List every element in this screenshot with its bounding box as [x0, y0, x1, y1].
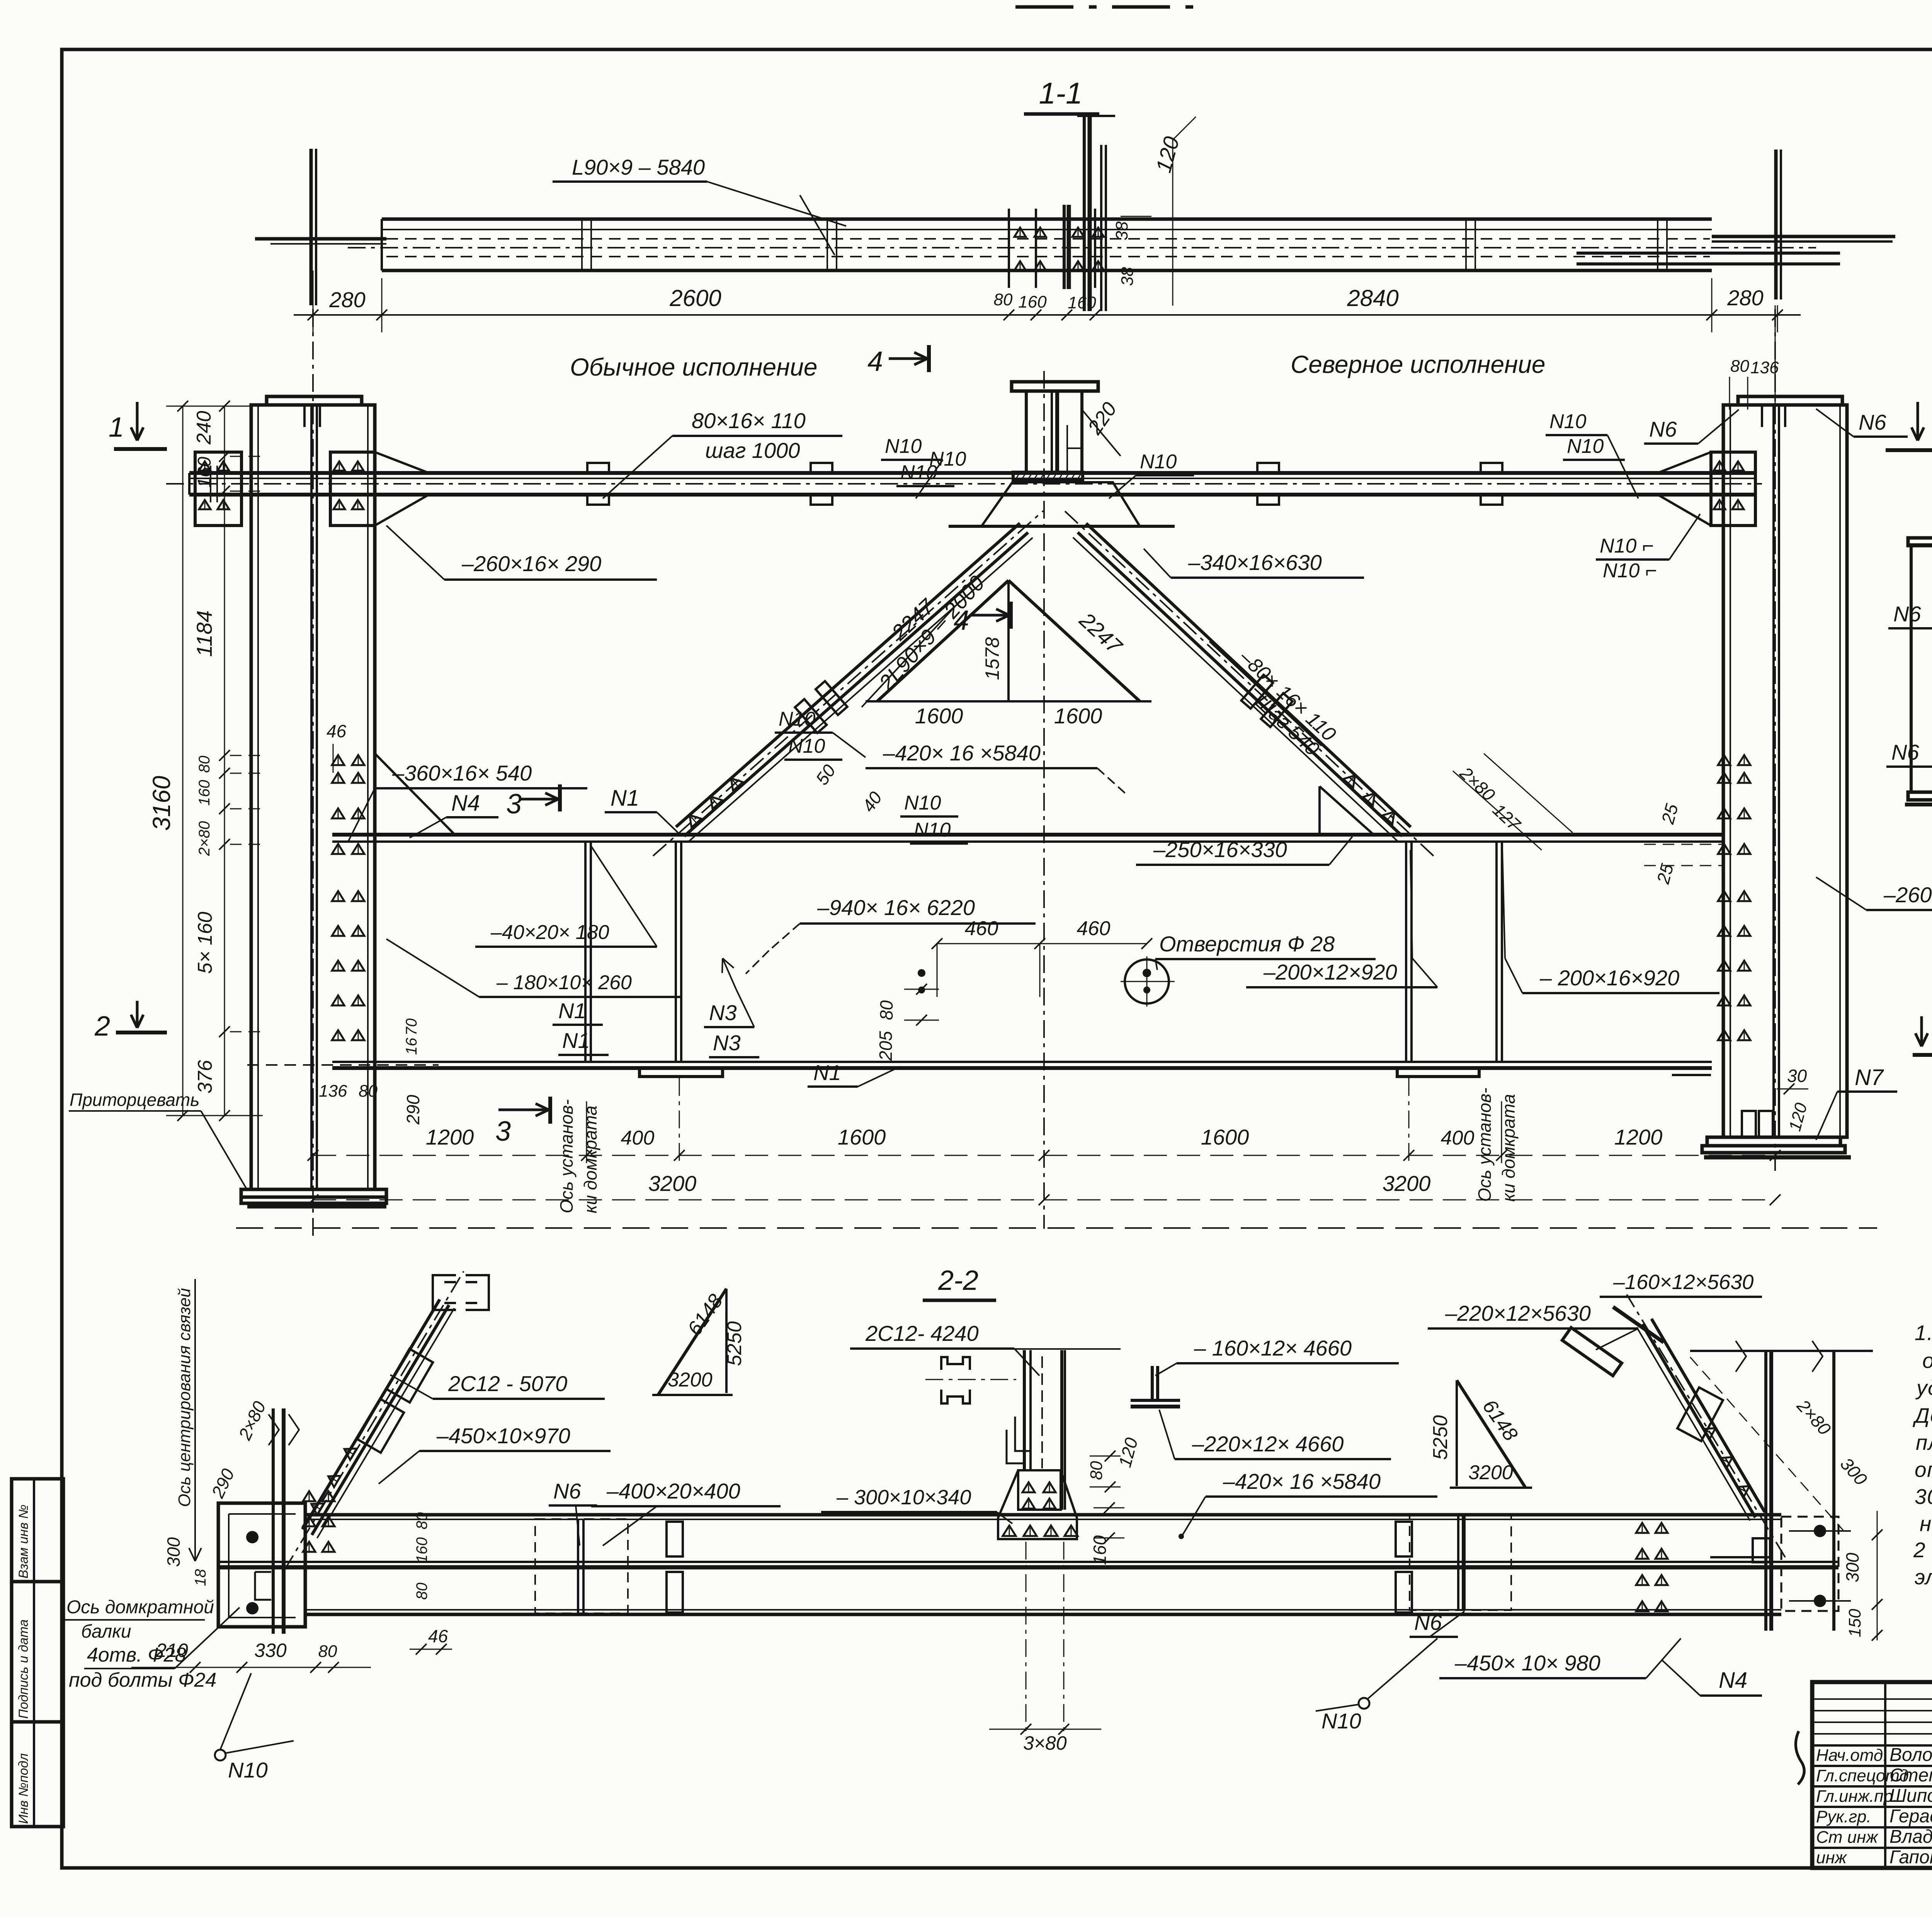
fold mark top center [1015, 5, 1198, 9]
svg-text:290: 290 [403, 1095, 423, 1125]
svg-text:N1: N1 [813, 1060, 841, 1085]
svg-text:N10: N10 [1140, 451, 1177, 473]
svg-text:80: 80 [1087, 1461, 1106, 1480]
apex gusset [981, 482, 1140, 526]
svg-text:Инв №подл: Инв №подл [16, 1753, 31, 1824]
lower datum dashed line [236, 1227, 1877, 1229]
svg-text:N10: N10 [904, 792, 941, 814]
svg-text:38: 38 [1112, 221, 1131, 240]
svg-text:160: 160 [413, 1537, 430, 1563]
svg-text:Ось центрирования связей: Ось центрирования связей [175, 1288, 194, 1507]
left column baseplate [241, 1189, 386, 1197]
main girder top flange [332, 833, 1724, 837]
svg-text:80: 80 [994, 290, 1013, 309]
2-2 3x80 dim [989, 1729, 1101, 1730]
svg-text:1: 1 [109, 412, 124, 443]
svg-text:1. Подъем (опускание) пролетно: 1. Подъем (опускание) пролетного строени… [1915, 1321, 1932, 1345]
holes d28 [1125, 959, 1169, 1004]
svg-text:1200: 1200 [1614, 1125, 1663, 1149]
svg-text:–420× 16 ×5840: –420× 16 ×5840 [883, 741, 1041, 765]
left gusset slopes [375, 452, 429, 473]
2-2 beam band bottom line [305, 1609, 1781, 1611]
svg-text:N6: N6 [553, 1479, 581, 1503]
svg-text:400: 400 [1441, 1127, 1475, 1149]
svg-text:80: 80 [876, 1000, 896, 1020]
svg-text:46: 46 [327, 721, 347, 741]
svg-text:– 300×10×340: – 300×10×340 [836, 1486, 971, 1509]
svg-text:Гл.инж.пр.: Гл.инж.пр. [1816, 1787, 1898, 1806]
svg-text:площадок, указанным на черте: площадок, указанным на черте жах : на кр… [1916, 1431, 1932, 1454]
2-2 weld cluster left [303, 1491, 315, 1501]
svg-text:2600: 2600 [669, 285, 721, 311]
girder bottom dims rows [313, 1155, 1775, 1156]
2-2 beam band top line [305, 1513, 1781, 1517]
svg-text:3200: 3200 [648, 1171, 697, 1196]
2-2 left column flange band [272, 1408, 275, 1634]
clamps on tie beam [587, 463, 609, 473]
2-2 left diagonal (plan) [303, 1300, 440, 1529]
svg-text:280: 280 [329, 287, 365, 312]
center stub column (section 4 element) [1012, 382, 1098, 391]
svg-text:5250: 5250 [723, 1321, 746, 1366]
svg-text:–200×12×920: –200×12×920 [1263, 960, 1397, 984]
svg-text:1600: 1600 [838, 1125, 886, 1149]
svg-text:N6: N6 [1891, 740, 1919, 764]
left anchor cross (section 1-1 left support) [310, 149, 313, 305]
svg-text:1600: 1600 [1054, 704, 1102, 728]
tie beam bolt box left of column [195, 452, 241, 526]
svg-text:N1: N1 [562, 1028, 590, 1053]
svg-text:376: 376 [194, 1060, 216, 1094]
2-2 right column flange band [1764, 1351, 1767, 1631]
svg-text:2840: 2840 [1347, 285, 1398, 311]
svg-text:Шипов: Шипов [1889, 1786, 1932, 1806]
svg-text:160: 160 [194, 457, 215, 488]
svg-text:опорах должен производиться: опорах должен производиться домкратными … [1922, 1349, 1932, 1373]
svg-text:N10: N10 [914, 819, 951, 841]
svg-text:–260×20×3140: –260×20×3140 [1883, 883, 1932, 907]
svg-text:N6: N6 [1649, 417, 1677, 441]
svg-text:–340×16×630: –340×16×630 [1188, 550, 1322, 575]
svg-text:N1: N1 [611, 786, 639, 811]
svg-text:3160: 3160 [148, 776, 175, 831]
svg-text:–420× 16 ×5840: –420× 16 ×5840 [1223, 1469, 1381, 1493]
svg-text:240: 240 [193, 411, 215, 445]
svg-text:Рук.гр.: Рук.гр. [1816, 1807, 1871, 1826]
2-2 channels near center [941, 1357, 970, 1370]
svg-text:300: 300 [163, 1537, 184, 1567]
svg-text:N4: N4 [451, 791, 480, 816]
svg-text:N10: N10 [1321, 1709, 1361, 1733]
svg-text:–160×12×5630: –160×12×5630 [1613, 1271, 1753, 1294]
svg-text:Приторцевать: Приторцевать [70, 1090, 199, 1110]
svg-text:N10 ⌐: N10 ⌐ [1603, 560, 1657, 582]
right column lower welds [1718, 755, 1730, 765]
2-2 right end plate [1781, 1517, 1838, 1611]
2-2 channel sections top left [433, 1275, 456, 1310]
svg-text:400: 400 [621, 1127, 655, 1149]
svg-text:Ось установ-: Ось установ- [1475, 1088, 1495, 1202]
svg-text:38: 38 [1118, 267, 1137, 286]
right diagonal brace [1078, 532, 1402, 836]
svg-text:70: 70 [403, 1019, 420, 1036]
right column [1723, 405, 1847, 1137]
main girder bottom flange [332, 1061, 1712, 1063]
svg-text:N10: N10 [228, 1758, 268, 1782]
svg-text:5× 160: 5× 160 [194, 912, 216, 974]
svg-text:160: 160 [1018, 293, 1047, 311]
right column cap [1738, 396, 1842, 405]
svg-text:2×80: 2×80 [196, 821, 213, 856]
svg-text:3200: 3200 [1383, 1171, 1431, 1196]
beam top chord 1-1 [382, 218, 1712, 221]
svg-text:–260×16× 290: –260×16× 290 [461, 551, 601, 576]
svg-text:под болты Ф24: под болты Ф24 [69, 1669, 216, 1691]
svg-text:Владимирова: Владимирова [1889, 1827, 1932, 1847]
svg-text:N6: N6 [1859, 410, 1886, 434]
2-2 isolated plates -160x12x4660 [1151, 1366, 1154, 1400]
svg-text:инж: инж [1816, 1848, 1847, 1867]
svg-text:3200: 3200 [1468, 1461, 1513, 1484]
2-2 left end plate [218, 1503, 305, 1627]
2-2 right diagonal [1642, 1324, 1755, 1517]
svg-text:N7: N7 [1855, 1065, 1884, 1090]
right column baseplate [1707, 1137, 1840, 1146]
svg-text:N10: N10 [788, 735, 825, 757]
svg-text:N10: N10 [885, 435, 922, 458]
2-2 center column element [989, 1348, 1121, 1350]
section 3-3 body [1911, 545, 1932, 792]
svg-text:– 160×12× 4660: – 160×12× 4660 [1194, 1336, 1352, 1360]
svg-text:L90×9 – 5840: L90×9 – 5840 [572, 155, 705, 179]
svg-text:16: 16 [403, 1038, 420, 1055]
svg-text:80: 80 [413, 1512, 430, 1530]
svg-text:18: 18 [192, 1569, 209, 1586]
svg-text:Нач.отд.: Нач.отд. [1816, 1746, 1888, 1765]
svg-text:Взам инв №: Взам инв № [16, 1505, 31, 1579]
dim 460 460 [937, 943, 1147, 944]
center axis dash-dot [1043, 371, 1045, 1229]
svg-text:80: 80 [413, 1583, 430, 1600]
2-2 right triangle diagram [1456, 1380, 1458, 1486]
svg-text:–940× 16× 6220: –940× 16× 6220 [817, 895, 975, 920]
svg-text:балки: балки [81, 1621, 131, 1642]
splice connection middle 1-1 [1008, 209, 1010, 288]
lower-left gusset slope [375, 754, 455, 835]
svg-text:N6: N6 [1893, 602, 1921, 626]
svg-text:N10: N10 [1549, 410, 1586, 433]
svg-text:2-2: 2-2 [938, 1265, 978, 1296]
svg-text:– 200×16×920: – 200×16×920 [1539, 966, 1679, 990]
tie beam weld box at left column [330, 452, 375, 526]
svg-text:2С12- 4240: 2С12- 4240 [865, 1321, 979, 1345]
svg-text:3: 3 [506, 789, 522, 820]
weld triangles at left diagonal foot [685, 811, 701, 827]
svg-text:N10: N10 [1567, 435, 1604, 458]
svg-text:5250: 5250 [1429, 1415, 1452, 1460]
geometry triangle 2247/1578/2247 [877, 580, 1009, 701]
svg-text:– 180×10× 260: – 180×10× 260 [496, 971, 632, 994]
bolt rows on 1-1 beam [581, 219, 583, 270]
svg-text:1184: 1184 [192, 611, 216, 657]
2-2 dashed rects on band [535, 1519, 628, 1613]
svg-text:160: 160 [196, 780, 213, 806]
svg-text:2С12 - 5070: 2С12 - 5070 [448, 1371, 567, 1396]
svg-text:2 Все расстояния от центра: 2 Все расстояния от центра болта до края [1913, 1538, 1932, 1562]
svg-text:–450× 10× 980: –450× 10× 980 [1454, 1651, 1600, 1675]
svg-text:Воловик: Воловик [1889, 1745, 1932, 1765]
connector pads on left diagonal [795, 699, 827, 733]
left dim chain [182, 406, 184, 1116]
svg-text:46: 46 [428, 1626, 448, 1646]
svg-text:150: 150 [1845, 1609, 1864, 1637]
svg-text:удовлетворяющими П.3 34 гл. С: удовлетворяющими П.3 34 гл. СНиП Ш-43-79 [1915, 1376, 1932, 1400]
left column cap plate [267, 396, 362, 405]
tie beam (top strut) [189, 471, 1756, 475]
svg-text:1600: 1600 [1201, 1125, 1249, 1149]
right thin plates (northern version) 1-1 [1577, 252, 1840, 255]
svg-text:не менее 500т: не менее 500т [1920, 1512, 1932, 1536]
dim 210/330/80 [131, 1667, 371, 1668]
svg-text:300т, на средних – 4 домк: 300т, на средних – 4 домкрата грузоподъе… [1915, 1485, 1932, 1509]
svg-text:Отверстия Ф 28: Отверстия Ф 28 [1159, 932, 1335, 956]
svg-text:3: 3 [495, 1116, 511, 1147]
svg-text:N10: N10 [929, 448, 966, 470]
svg-text:3200: 3200 [668, 1369, 713, 1391]
section marker 1 right [1917, 402, 1919, 441]
svg-text:Ось установ-: Ось установ- [556, 1099, 577, 1213]
svg-text:80: 80 [359, 1082, 378, 1101]
svg-text:1-1: 1-1 [1039, 76, 1083, 110]
section marker 3 lower [498, 1109, 549, 1111]
title block outer [1812, 1682, 1932, 1868]
right anchor cross 1-1 [1774, 150, 1778, 299]
svg-text:опорах – 2 домкрата грузопо: опорах – 2 домкрата грузоподъемностью не… [1915, 1458, 1932, 1482]
dimension line 1-1 [294, 314, 1801, 316]
svg-text:–360×16× 540: –360×16× 540 [392, 761, 532, 785]
right column weld box at tie beam [1711, 452, 1755, 526]
jack pads under bottom flange [639, 1068, 723, 1077]
svg-text:4: 4 [867, 346, 883, 377]
svg-text:300: 300 [1842, 1553, 1862, 1582]
svg-text:элемента, кроме оговоренных ,: элемента, кроме оговоренных , 50 мм [1915, 1565, 1932, 1589]
2-2 right weld cluster [1636, 1523, 1648, 1533]
svg-text:шаг 1000: шаг 1000 [705, 438, 800, 463]
svg-text:1600: 1600 [915, 704, 963, 728]
svg-text:210: 210 [155, 1640, 188, 1661]
2-2 right rotated dims [1690, 1357, 1843, 1530]
svg-text:1578: 1578 [981, 637, 1003, 680]
svg-text:330: 330 [254, 1640, 287, 1661]
svg-text:80: 80 [318, 1642, 337, 1661]
svg-text:–450×10×970: –450×10×970 [436, 1424, 570, 1448]
svg-text:136: 136 [319, 1082, 347, 1101]
svg-text:N1: N1 [558, 998, 586, 1023]
girder stiffeners [584, 842, 587, 1062]
svg-text:460: 460 [965, 917, 998, 940]
svg-text:80: 80 [1730, 357, 1749, 376]
svg-text:N3: N3 [713, 1031, 741, 1055]
2-2 left triangle diagram [725, 1289, 728, 1393]
2-2 stiffener pads on band [667, 1522, 683, 1556]
hatched seat pad [1013, 472, 1083, 481]
svg-text:205: 205 [876, 1031, 896, 1061]
svg-text:1200: 1200 [426, 1125, 474, 1149]
svg-text:Степанов: Степанов [1889, 1765, 1932, 1786]
svg-text:–220×12× 4660: –220×12× 4660 [1192, 1432, 1344, 1456]
svg-text:Ст инж: Ст инж [1816, 1828, 1878, 1847]
2-2 center foot [998, 1470, 1077, 1539]
left margin stamp boxes [12, 1479, 63, 1582]
svg-text:–220×12×5630: –220×12×5630 [1445, 1301, 1591, 1325]
svg-text:Герасимова: Герасимова [1889, 1806, 1932, 1827]
svg-text:460: 460 [1077, 917, 1111, 940]
svg-text:80×16× 110: 80×16× 110 [692, 408, 806, 433]
svg-text:3×80: 3×80 [1023, 1732, 1067, 1754]
svg-text:–400×20×400: –400×20×400 [606, 1479, 740, 1503]
svg-text:Ось домкратной: Ось домкратной [66, 1597, 214, 1618]
svg-text:Домкраты должны размещаться: Домкраты должны размещаться строго по ос… [1912, 1403, 1932, 1427]
svg-text:–40×20× 180: –40×20× 180 [490, 921, 609, 944]
2-2 beam band mid lines [218, 1561, 1838, 1563]
svg-text:160: 160 [1068, 293, 1096, 312]
svg-text:30: 30 [1787, 1066, 1807, 1086]
svg-text:N4: N4 [1719, 1668, 1747, 1693]
svg-text:Гапонова: Гапонова [1889, 1847, 1932, 1868]
title block signature grid [1812, 1698, 1932, 1700]
svg-text:80: 80 [196, 756, 213, 773]
left column [251, 405, 375, 1189]
svg-text:Подпись и дата: Подпись и дата [16, 1619, 31, 1719]
svg-text:N3: N3 [709, 1000, 737, 1025]
left column 5x160 weld rows [332, 891, 344, 901]
N10 leader bottom left [215, 1750, 226, 1761]
svg-text:Северное исполнение: Северное исполнение [1291, 350, 1546, 378]
svg-text:Обычное исполнение: Обычное исполнение [570, 353, 818, 381]
left column lower weld rows (2x80,160,80) [332, 755, 344, 765]
svg-text:N10 ⌐: N10 ⌐ [1600, 535, 1654, 557]
left diagonal brace 2L90x9 [676, 523, 1020, 827]
svg-text:N10: N10 [779, 708, 815, 730]
svg-text:280: 280 [1727, 286, 1763, 310]
svg-text:2: 2 [94, 1011, 110, 1042]
